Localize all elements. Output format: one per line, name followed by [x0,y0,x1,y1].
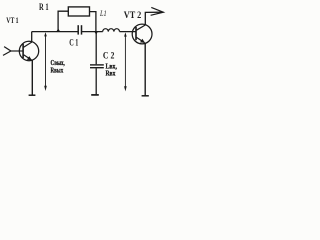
wire VT2 emitter down [144,43,146,95]
svg-text:L1: L1 [99,9,106,18]
transistor VT1 [19,41,38,60]
transistor VT2 [132,24,152,44]
wire input lead to VT1 base [11,50,23,52]
resistor R1 [68,7,89,16]
measure arrow Svyh/Rvyh [44,32,47,91]
wire VT1 collector up [31,32,33,43]
capacitor C1 [78,25,81,34]
svg-text:VT 1: VT 1 [6,16,18,25]
wire main collector rail [32,31,78,33]
svg-text:C 1: C 1 [69,37,79,47]
wire R1 left leg [58,11,68,31]
ground bar under C2 [91,94,99,96]
svg-text:Rвх: Rвх [106,69,116,77]
input arrow [3,47,11,56]
svg-text:R 1: R 1 [39,2,49,12]
svg-text:C 2: C 2 [103,51,115,61]
ground bar under VT2 [142,95,149,97]
wire C1 to coil [82,31,103,33]
wire coil to VT2 base [120,31,137,33]
capacitor C2 [90,32,104,95]
node at R1 left leg [56,28,60,32]
node at C2 branch [94,31,98,35]
svg-text:Rвых: Rвых [51,66,64,74]
measure arrow Lvh/Rvh [124,32,127,91]
svg-text:VT 2: VT 2 [124,11,142,21]
wire VT2 collector up [145,12,163,25]
wire R1 right leg [90,12,96,32]
inductor L1 [103,29,120,32]
output arrow [151,7,164,15]
ground bar under VT1 [29,94,36,96]
wire VT1 emitter down [31,60,33,95]
